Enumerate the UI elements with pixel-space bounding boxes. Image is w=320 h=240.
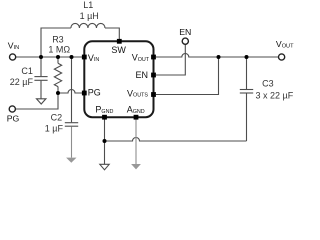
wire L1 branch up and left bbox=[41, 28, 71, 57]
wire L1 to SW pin bbox=[105, 28, 119, 41]
terminal VIN bbox=[10, 54, 16, 60]
pin VOUTS bbox=[151, 92, 156, 97]
terminal PG bbox=[9, 106, 15, 112]
terminal EN bbox=[182, 38, 188, 44]
svg-text:C3: C3 bbox=[262, 78, 274, 88]
wire C1 top lead bbox=[40, 57, 42, 76]
svg-text:PG: PG bbox=[88, 88, 101, 98]
wire EN terminal down to EN pin bbox=[156, 45, 185, 76]
terminal VOUT bbox=[279, 54, 285, 60]
wire VOUTS loop bbox=[156, 57, 219, 95]
wire PG terminal to R3 bottom junction bbox=[15, 93, 58, 109]
svg-text:22 µF: 22 µF bbox=[10, 77, 34, 87]
capacitor C2 bbox=[65, 122, 78, 124]
svg-text:C2: C2 bbox=[51, 112, 63, 122]
wire PG net with hop over C2 wire bbox=[58, 90, 82, 93]
pin SW bbox=[117, 39, 122, 44]
node junction R3/PG bbox=[56, 91, 60, 95]
ground C1 bbox=[37, 99, 46, 104]
wire VOUT rail with hop over EN wire bbox=[156, 54, 278, 57]
svg-text:EN: EN bbox=[179, 27, 191, 37]
svg-text:EN: EN bbox=[136, 70, 149, 80]
wire R3 top lead bbox=[57, 57, 59, 63]
svg-text:L1: L1 bbox=[83, 0, 93, 10]
wire C3 top lead bbox=[246, 57, 248, 89]
inductor L1 bbox=[71, 23, 105, 28]
pin PG bbox=[82, 91, 87, 96]
svg-text:1 MΩ: 1 MΩ bbox=[48, 44, 70, 54]
node junction VOUT/C3 bbox=[245, 55, 249, 59]
node junction VIN/C2 bbox=[70, 55, 74, 59]
node junction VIN/R3 bbox=[56, 55, 60, 59]
wire VIN rail bbox=[16, 56, 84, 58]
capacitor C3 bbox=[240, 89, 253, 91]
wire C1 bottom lead bbox=[40, 81, 42, 99]
svg-text:C1: C1 bbox=[21, 66, 33, 76]
wire PGND down bbox=[104, 120, 106, 165]
wire C3 bottom to ground rail bbox=[246, 93, 248, 141]
node junction VIN/L1/C1 bbox=[39, 55, 43, 59]
pin VOUT bbox=[151, 55, 156, 60]
svg-text:R3: R3 bbox=[52, 34, 64, 44]
pin VIN bbox=[82, 55, 87, 60]
IC U1 outline bbox=[84, 41, 153, 117]
svg-text:SW: SW bbox=[111, 45, 126, 55]
node junction PGND/ground bbox=[103, 139, 107, 143]
wire R3 bottom lead bbox=[57, 87, 59, 93]
svg-text:1 µH: 1 µH bbox=[80, 11, 99, 21]
ground PGND bbox=[100, 164, 109, 170]
wire C2 top lead bbox=[71, 57, 73, 122]
capacitor C1 bbox=[34, 76, 47, 78]
pin EN bbox=[151, 73, 156, 78]
wire C2 bottom lead bbox=[71, 127, 73, 158]
pin PGND bbox=[102, 115, 107, 120]
wire AGND down bbox=[135, 120, 137, 165]
svg-text:PG: PG bbox=[7, 113, 20, 123]
svg-text:3 x 22 µF: 3 x 22 µF bbox=[256, 91, 294, 101]
svg-text:1 µF: 1 µF bbox=[45, 124, 64, 134]
pin AGND bbox=[134, 115, 139, 120]
resistor R3 bbox=[54, 63, 61, 86]
wire ground rail with hop over AGND wire bbox=[105, 138, 247, 141]
ground C2 bbox=[66, 158, 76, 163]
ground AGND bbox=[131, 164, 141, 169]
node junction VOUT/VOUTS bbox=[217, 55, 221, 59]
